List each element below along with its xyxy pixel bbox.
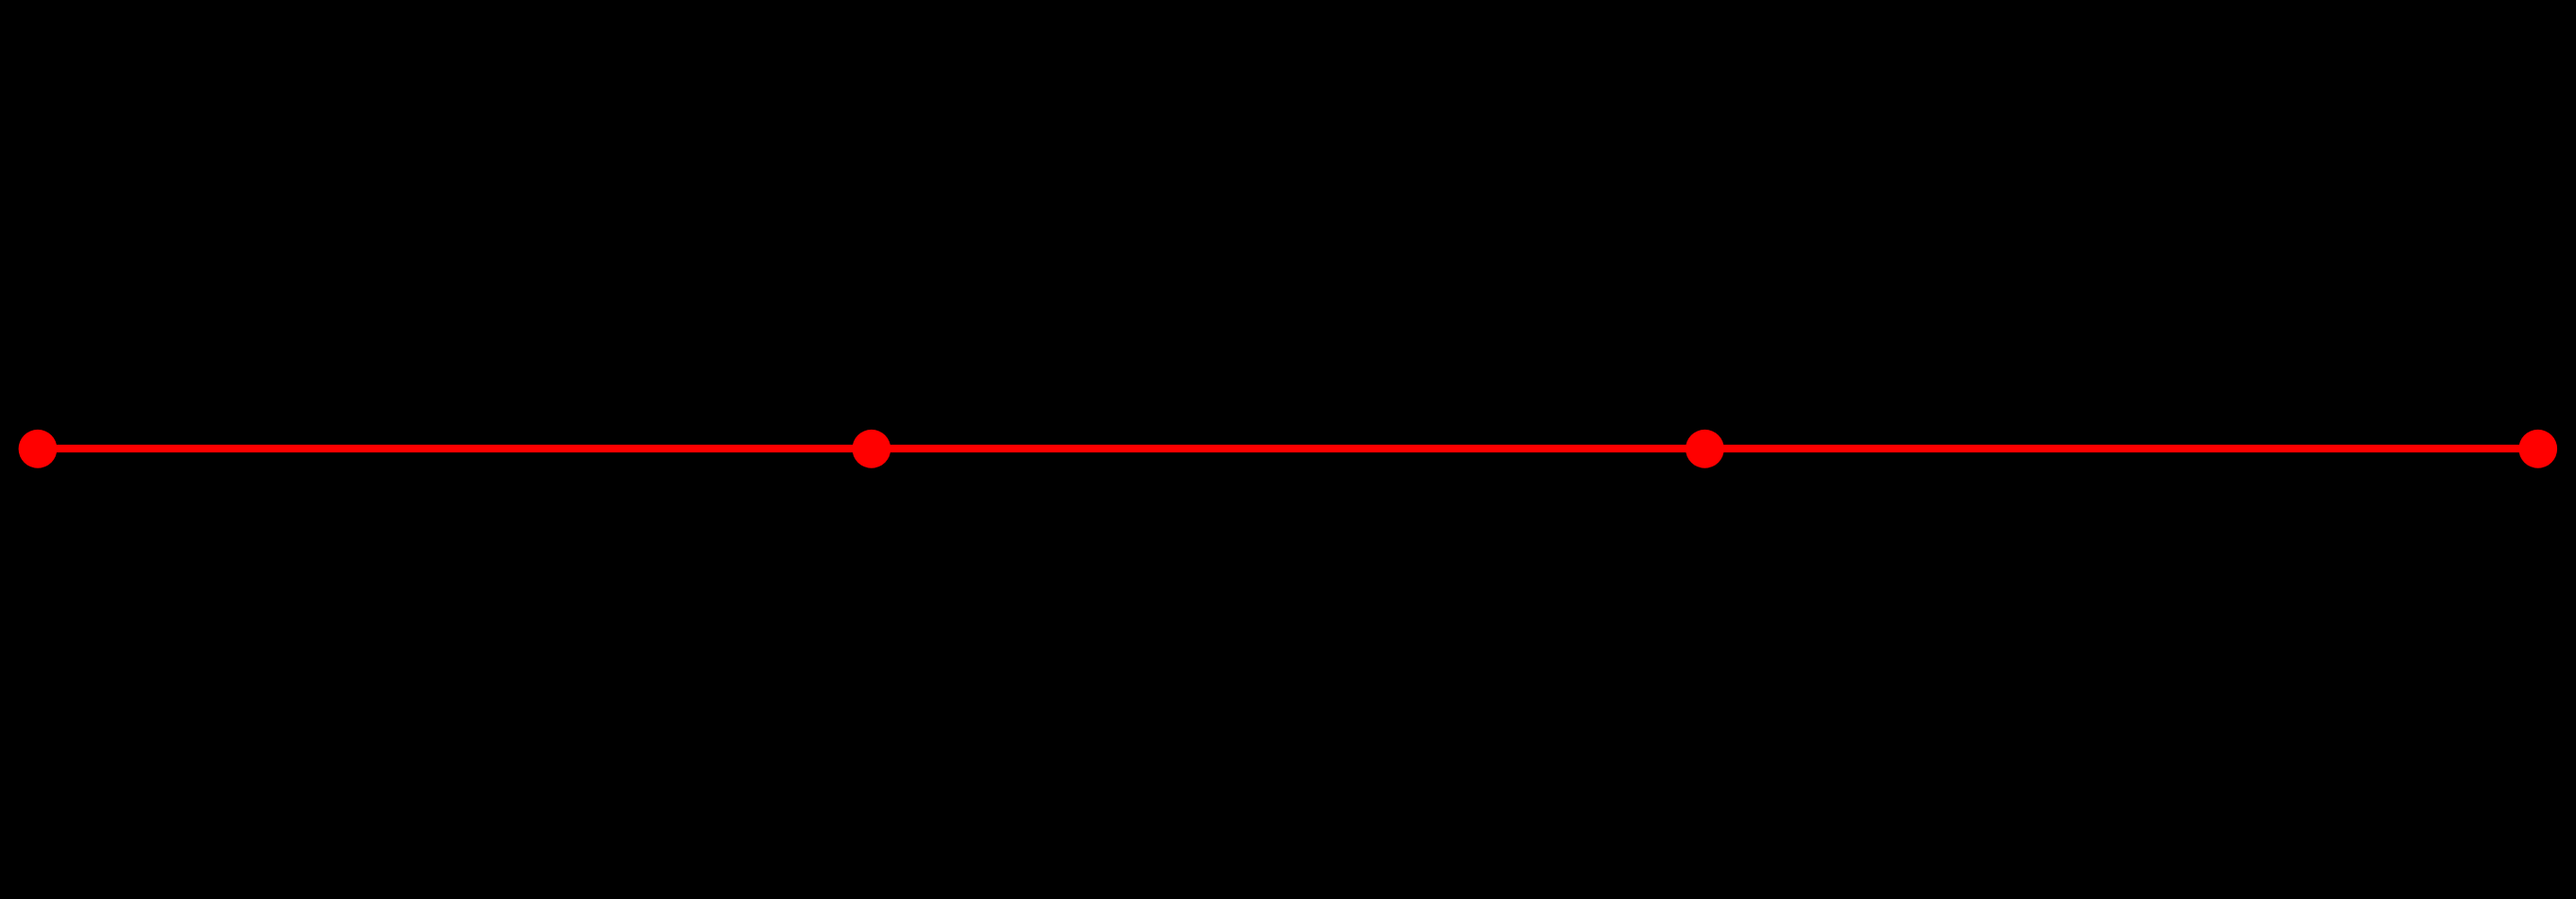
data line series bbox=[38, 445, 2538, 452]
data point 3 bbox=[1686, 430, 1724, 468]
data point 1 bbox=[19, 430, 58, 468]
data point 4 bbox=[2518, 430, 2557, 468]
data point 2 bbox=[853, 430, 891, 468]
